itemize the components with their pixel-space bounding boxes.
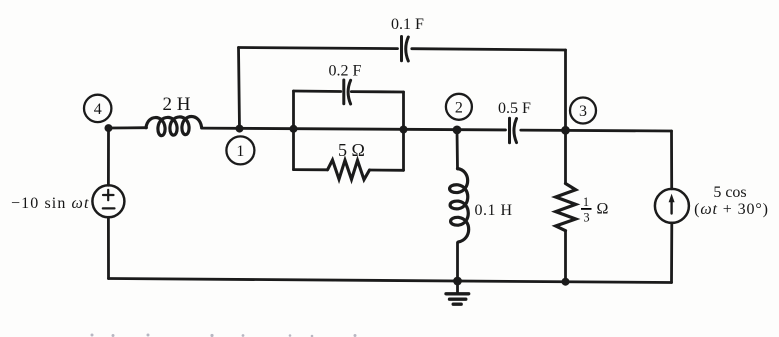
wire riser node1 to top wire bbox=[239, 48, 240, 129]
wire box left vertical bbox=[292, 91, 295, 170]
capacitor C 0.2 F plates bbox=[344, 80, 351, 104]
junction node3 bbox=[561, 126, 570, 135]
inductor L 2 H bbox=[146, 117, 202, 136]
svg-text:0.1 H: 0.1 H bbox=[475, 202, 513, 219]
svg-text:1: 1 bbox=[236, 143, 244, 160]
wire bottom horizontal bbox=[109, 279, 672, 283]
svg-text:−10 sin ωt: −10 sin ωt bbox=[11, 195, 89, 212]
svg-text:0.1 F: 0.1 F bbox=[391, 16, 424, 33]
label 1/3 fraction bar bbox=[581, 208, 592, 210]
svg-text:3: 3 bbox=[583, 211, 589, 225]
wire right branch upper: main wire to current source bbox=[670, 131, 673, 189]
capacitor C 0.1 F plates bbox=[402, 37, 409, 62]
wire main horizontal left: node4 to 2H bbox=[109, 126, 147, 129]
resistor R 5 ohm zigzag bbox=[328, 160, 370, 180]
svg-text:2: 2 bbox=[455, 99, 463, 116]
svg-text:2 H: 2 H bbox=[163, 94, 191, 115]
junction bottom at ground bbox=[453, 277, 462, 286]
wire resistor to bottom wire bbox=[564, 231, 567, 282]
junction node1 bbox=[236, 125, 244, 133]
svg-text:5 Ω: 5 Ω bbox=[338, 140, 365, 160]
inductor L 0.1 H vertical coil bbox=[450, 169, 469, 242]
ground bars bbox=[446, 294, 469, 304]
wire top right segment bbox=[412, 49, 566, 50]
bleed-through dots bottom bbox=[91, 334, 94, 337]
wire box bottom rail left bbox=[294, 168, 328, 171]
wire box bottom rail right bbox=[370, 169, 404, 172]
voltage source V1 circle bbox=[92, 185, 124, 217]
junction box left bbox=[290, 125, 298, 133]
resistor R 1/3 ohm zigzag bbox=[556, 184, 576, 231]
junction bottom at resistor bbox=[562, 278, 570, 286]
svg-text:Ω: Ω bbox=[597, 201, 609, 218]
vsource minus sign bbox=[103, 207, 115, 209]
current source arrowhead bbox=[669, 194, 675, 203]
wire left branch lower: vsource to bottom wire bbox=[107, 217, 110, 278]
junction node2 bbox=[453, 125, 462, 134]
wire top left segment bbox=[239, 48, 398, 49]
ground stub bbox=[456, 281, 459, 293]
wire 0.1H coil to bottom wire bbox=[456, 243, 459, 282]
wire right branch lower bbox=[670, 223, 673, 283]
wire box top rail left bbox=[294, 90, 341, 93]
vsource plus sign bbox=[103, 190, 115, 209]
node circle 1 bbox=[226, 136, 254, 164]
wire main horizontal: 2H to 0.5F cap bbox=[202, 128, 506, 130]
junction box right bbox=[400, 126, 408, 134]
node circle 2 bbox=[446, 94, 472, 120]
wire node2 down to 0.1H coil bbox=[456, 130, 459, 169]
current source arrow shaft bbox=[670, 199, 672, 214]
wire box right vertical bbox=[402, 92, 405, 170]
current source I1 circle bbox=[655, 189, 689, 223]
svg-text:0.5 F: 0.5 F bbox=[498, 100, 531, 117]
node circle 3 bbox=[570, 98, 596, 124]
svg-text:4: 4 bbox=[94, 101, 102, 118]
svg-text:3: 3 bbox=[579, 103, 587, 120]
wire node3 down to resistor bbox=[564, 130, 567, 183]
svg-text:1: 1 bbox=[583, 195, 589, 209]
node circle 4 bbox=[84, 95, 111, 122]
svg-text:(ωt + 30°): (ωt + 30°) bbox=[694, 201, 769, 218]
wire main horizontal: 0.5F to right corner bbox=[521, 129, 672, 133]
wire riser top wire down to node3 bbox=[564, 50, 567, 130]
capacitor C 0.5 F plates bbox=[510, 118, 517, 143]
wire box top rail right bbox=[351, 90, 403, 93]
junction node4 bbox=[105, 124, 113, 132]
wire left branch upper: node4 to vsource bbox=[107, 128, 110, 185]
svg-text:0.2 F: 0.2 F bbox=[329, 63, 362, 80]
svg-text:5 cos: 5 cos bbox=[713, 184, 746, 201]
